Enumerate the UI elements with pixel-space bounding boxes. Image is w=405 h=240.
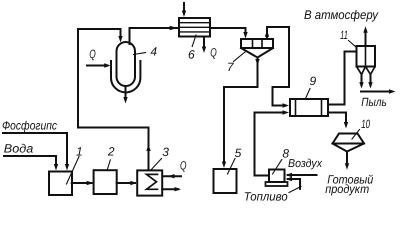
burner 8 [269, 170, 285, 183]
svg-text:7: 7 [227, 60, 235, 74]
wire coolant into 6 from top [183, 3, 185, 11]
cyclone 11 [357, 46, 376, 67]
wire 9 to 11 [328, 52, 357, 105]
wire Q out of 6 bottom [203, 37, 205, 48]
svg-text:5: 5 [235, 146, 242, 160]
wire 7 gas outlet to 9 [267, 27, 289, 106]
svg-text:11: 11 [340, 28, 348, 42]
wire 2 to 3 [117, 182, 135, 184]
separator 7 [241, 39, 273, 48]
wire product out of 10 [346, 152, 348, 165]
wire exhaust to atmosphere [365, 32, 367, 46]
heater 3 [137, 170, 162, 195]
svg-text:Q: Q [89, 47, 96, 61]
wire Q into 3 [163, 175, 182, 177]
svg-text:Q: Q [210, 46, 217, 60]
granulator 2 [94, 170, 117, 194]
bin 5 [214, 169, 237, 193]
svg-text:2: 2 [107, 144, 115, 158]
svg-text:4: 4 [150, 45, 157, 59]
heater element sigma [147, 174, 158, 189]
svg-text:Вода: Вода [4, 142, 34, 156]
wire 9 to 10 [328, 113, 346, 123]
wire water feed [4, 156, 56, 165]
svg-text:Топливо: Топливо [244, 189, 288, 203]
arrowhead up on riser from 3 [146, 145, 150, 152]
condenser 6 [179, 18, 210, 37]
svg-text:Воздух: Воздух [288, 158, 323, 170]
wire Q arrow into vessel 4 [87, 65, 105, 67]
svg-text:9: 9 [310, 74, 317, 88]
drum dryer 9 [290, 99, 328, 116]
wire 1 to 2 [72, 182, 92, 184]
wire 7 bottom outlet to 5 [224, 58, 258, 162]
svg-text:6: 6 [188, 48, 195, 62]
wire phosphogypsum feed [3, 133, 67, 165]
wire 8 to 9 [255, 113, 284, 176]
vessel 4 granulator tower [117, 42, 136, 86]
classifier 10 [333, 134, 365, 152]
wire 3 to 4 riser [78, 29, 149, 170]
svg-text:В атмосферу: В атмосферу [304, 8, 379, 22]
svg-text:Фосфогипс: Фосфогипс [2, 119, 57, 133]
mixer 1 [49, 172, 72, 196]
svg-text:продукт: продукт [325, 182, 369, 196]
wire fuel into 8 [288, 179, 300, 189]
svg-text:Пыль: Пыль [361, 95, 387, 109]
wire outlet of 4 [125, 88, 127, 98]
wire cyclone dust drops [362, 75, 371, 84]
arrowhead down into vessel 4 [118, 36, 122, 43]
wire 4 to 6 [130, 28, 179, 44]
jacket of vessel 4 [111, 61, 140, 92]
svg-text:Q: Q [180, 158, 187, 172]
wire Q out of 3 [162, 188, 178, 190]
wire dust line [361, 91, 390, 93]
wire 6 to 7 [210, 28, 246, 33]
wire air into 8 [288, 174, 317, 176]
svg-text:3: 3 [162, 145, 169, 159]
svg-text:10: 10 [361, 117, 370, 131]
